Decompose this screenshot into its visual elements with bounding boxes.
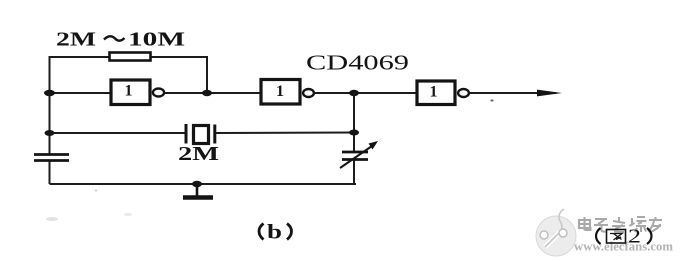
svg-text:2M: 2M [56,29,96,51]
resistor R (2M~10M) [110,53,151,61]
svg-text:CD4069: CD4069 [306,51,409,75]
node A (left, main line) [44,90,55,96]
label 2M~10M [56,29,185,51]
node C (output of U1b) [349,90,359,96]
inverter U1b [261,80,314,105]
svg-text:1: 1 [276,83,284,100]
发 [612,217,625,232]
子 [594,219,608,232]
watermark text 电子发烧友 (approximated glyphs) [579,217,662,232]
svg-text:2M: 2M [178,143,219,165]
wire: right vertical branch [353,93,355,184]
label (b) [259,220,292,244]
crystal XT 2M [186,124,215,144]
node E (right, crystal line) [349,130,359,136]
svg-text:10M: 10M [128,29,185,51]
svg-text:1: 1 [430,84,438,101]
wire: main line y=93 [50,92,557,94]
node D (left, crystal line) [45,130,55,136]
wire: left vertical branch [49,93,51,184]
label (图2) [596,227,652,248]
wire: crystal line y=133 [50,132,355,135]
capacitor C1 (left) [34,155,69,161]
inverter U1c [417,81,469,105]
variable capacitor C2 [340,141,378,168]
inverter U1a [111,80,164,105]
watermark logo [536,209,576,256]
ground [183,181,213,198]
wire: top feedback loop [50,57,208,93]
烧 [630,217,647,232]
node B (right of U1a loop) [202,90,212,96]
svg-text:2: 2 [628,227,641,248]
wire: bottom rail [50,183,357,185]
svg-text:1: 1 [125,83,133,100]
友 [648,217,662,232]
output arrow [537,90,562,97]
svg-text:www.elecfans.com: www.elecfans.com [574,239,673,254]
scan specks (noise from original) [490,99,493,101]
电 [579,217,591,230]
svg-text:b: b [267,220,282,244]
